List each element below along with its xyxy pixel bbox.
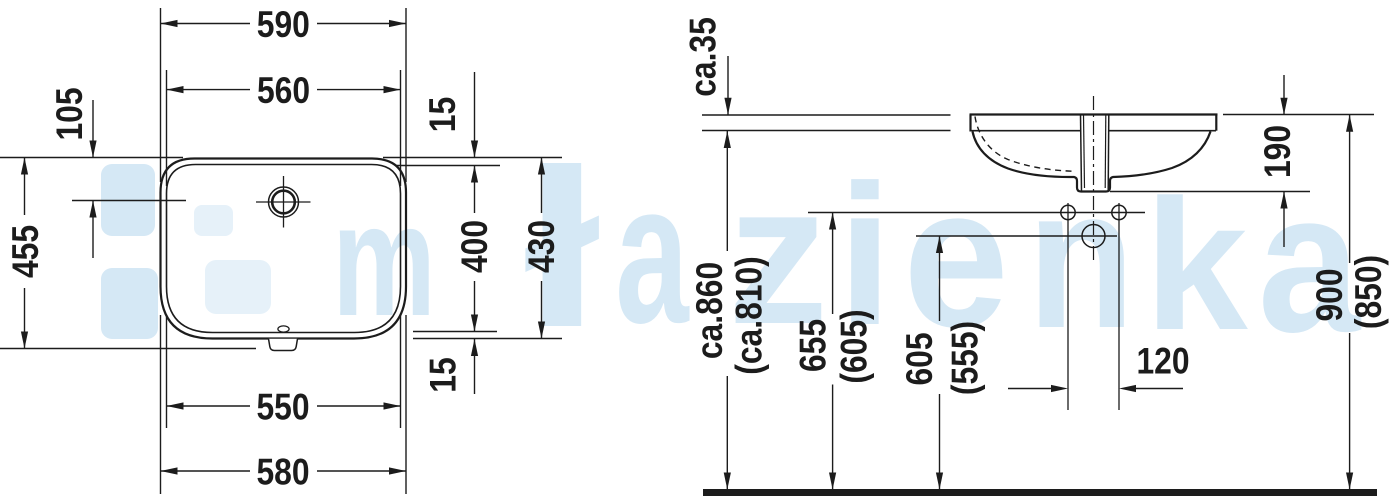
svg-text:15: 15 — [423, 357, 464, 392]
svg-text:ca.35: ca.35 — [683, 17, 724, 97]
svg-text:455: 455 — [6, 225, 47, 278]
svg-text:430: 430 — [522, 220, 563, 273]
svg-text:a: a — [1258, 150, 1362, 374]
svg-text:(555): (555) — [945, 321, 986, 395]
svg-text:550: 550 — [256, 387, 309, 428]
svg-text:400: 400 — [455, 220, 496, 273]
svg-text:a: a — [615, 141, 690, 364]
svg-text:120: 120 — [1136, 341, 1189, 382]
svg-text:105: 105 — [50, 87, 91, 140]
svg-text:(605): (605) — [834, 309, 875, 383]
svg-text:(850): (850) — [1349, 255, 1390, 329]
svg-text:605: 605 — [900, 332, 941, 385]
svg-text:580: 580 — [256, 452, 309, 493]
svg-text:655: 655 — [793, 319, 834, 372]
svg-text:560: 560 — [257, 71, 310, 112]
svg-text:m: m — [332, 170, 436, 349]
svg-text:190: 190 — [1258, 125, 1299, 178]
svg-text:(ca.810): (ca.810) — [729, 256, 770, 374]
svg-text:k: k — [1144, 162, 1248, 369]
svg-text:900: 900 — [1310, 268, 1351, 321]
svg-text:ca.860: ca.860 — [690, 262, 731, 359]
svg-text:590: 590 — [257, 5, 310, 46]
svg-text:15: 15 — [423, 97, 464, 132]
